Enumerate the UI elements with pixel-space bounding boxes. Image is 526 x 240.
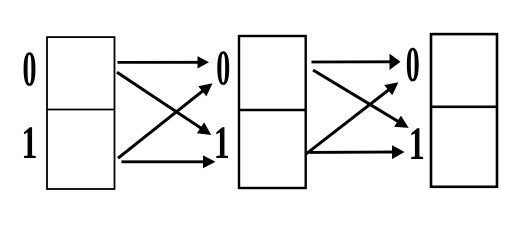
arrow col2 state1 to col3 state0 (diagonal up right) bbox=[306, 82, 399, 154]
arrow col2 state0 to col3 state1 (diagonal down right) bbox=[313, 70, 409, 128]
arrow col1 state1 to col2 state1 (horizontal bottom left) bbox=[122, 155, 216, 168]
svg-text:1: 1 bbox=[214, 116, 230, 169]
svg-text:0: 0 bbox=[406, 36, 420, 92]
svg-text:1: 1 bbox=[409, 117, 425, 170]
arrow col2 state0 to col3 state0 (horizontal top right) bbox=[312, 54, 401, 70]
svg-text:0: 0 bbox=[22, 41, 36, 97]
state box column 1 (two cells) bbox=[47, 37, 115, 189]
arrow col2 state1 to col3 state1 (horizontal bottom right) bbox=[310, 145, 405, 159]
state box column 2 (two cells) bbox=[239, 36, 306, 188]
arrow col1 state0 to col2 state0 (horizontal top left) bbox=[118, 56, 210, 68]
state box column 3 (two cells) bbox=[431, 34, 497, 187]
arrow col1 state0 to col2 state1 (diagonal down left) bbox=[117, 72, 211, 135]
svg-text:1: 1 bbox=[21, 116, 37, 169]
arrow col1 state1 to col2 state0 (diagonal up left) bbox=[118, 83, 213, 158]
svg-text:0: 0 bbox=[216, 40, 230, 96]
